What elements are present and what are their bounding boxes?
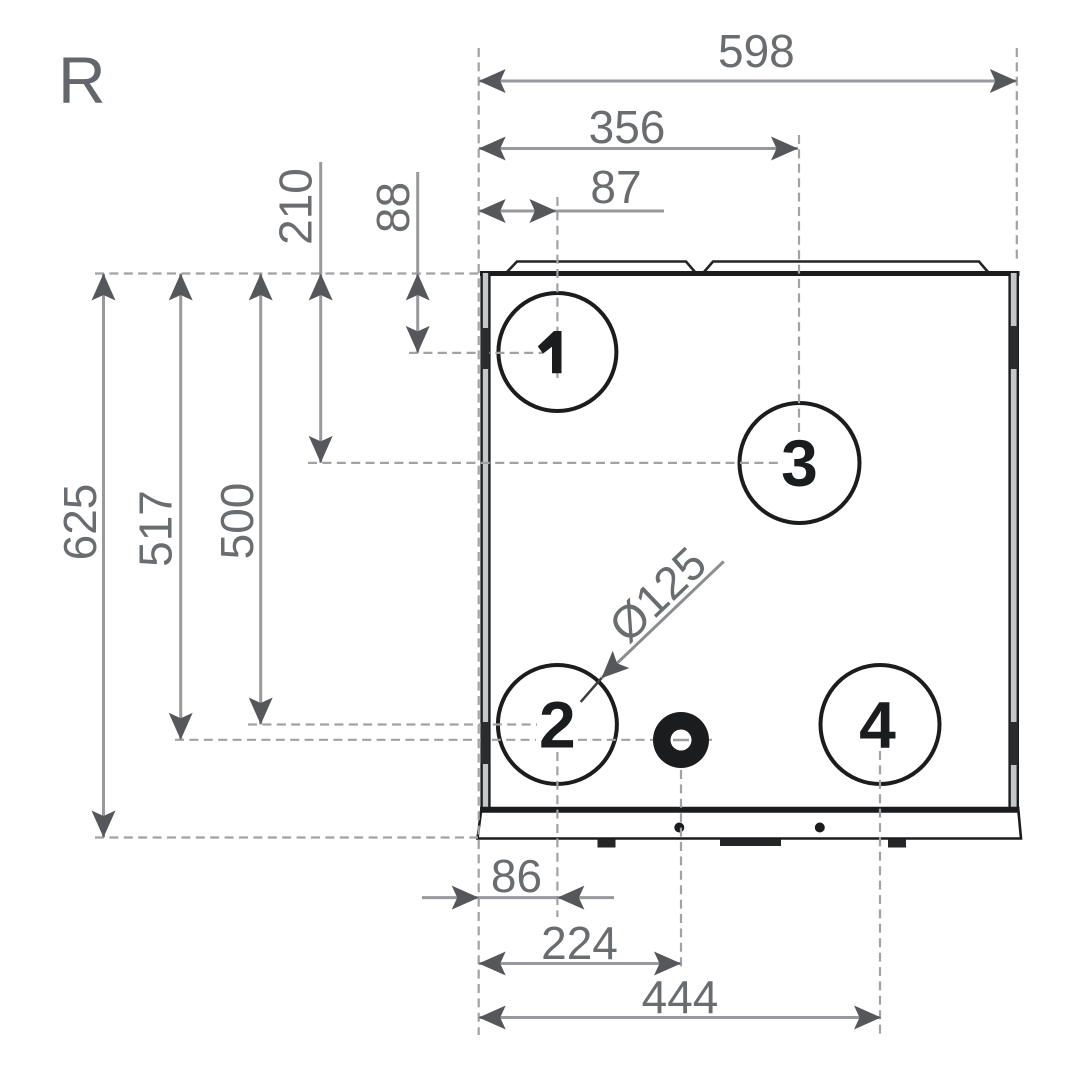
port 4 circle	[821, 665, 940, 784]
svg-text:R: R	[58, 43, 106, 117]
centerline drain horizontal right	[578, 739, 712, 741]
left wall hinge tab upper	[481, 328, 490, 369]
dim 356 line	[479, 147, 798, 150]
svg-text:2: 2	[539, 688, 576, 762]
svg-text:517: 517	[130, 490, 182, 567]
unit body group	[478, 262, 1022, 848]
left wall	[481, 273, 491, 809]
port 2 circle	[498, 665, 617, 784]
svg-text:210: 210	[270, 168, 322, 245]
bottom edge of door	[480, 807, 1020, 812]
centerline dashes	[95, 48, 1017, 1035]
right wall	[1009, 273, 1020, 809]
dim 86 line	[422, 896, 614, 899]
left wall hinge tab lower	[481, 722, 490, 764]
svg-text:87: 87	[590, 161, 641, 213]
svg-text:625: 625	[54, 484, 106, 561]
dim 500 line	[259, 274, 262, 725]
screw dot right	[815, 823, 825, 833]
svg-text:356: 356	[589, 101, 666, 153]
screw dot left	[674, 823, 684, 833]
svg-text:86: 86	[491, 850, 542, 902]
lid seam bump left	[507, 262, 695, 273]
dim 224 line	[479, 962, 681, 965]
svg-text:500: 500	[211, 483, 263, 560]
top edge	[480, 271, 1020, 276]
leader line Ø125	[602, 561, 724, 678]
svg-text:88: 88	[367, 182, 419, 233]
right wall hinge tab upper	[1010, 326, 1018, 369]
extension top horizontal	[95, 272, 479, 274]
svg-text:4: 4	[859, 688, 896, 762]
centerline port2 horizontal	[248, 723, 537, 725]
port 3 circle	[740, 403, 860, 523]
centerline drain horizontal left	[175, 739, 536, 741]
drain port	[653, 712, 709, 768]
svg-text:224: 224	[541, 917, 618, 969]
numeral 1	[538, 331, 562, 373]
dim 210 line	[319, 162, 322, 463]
centerline port3 horizontal	[308, 462, 782, 464]
drain hole centerline dash	[673, 739, 689, 742]
centerline port2 vertical lower	[556, 752, 558, 917]
centerline port1/2 vertical upper	[556, 197, 558, 378]
centerline port4 vertical	[879, 751, 881, 1035]
port numerals	[538, 331, 896, 762]
dim 598 line	[479, 80, 1017, 83]
dim 87 line	[479, 210, 664, 213]
svg-text:598: 598	[718, 25, 795, 77]
dim 517 line	[179, 274, 182, 740]
left wall hinge tabs overdraw	[481, 328, 490, 369]
foot center	[720, 840, 781, 847]
svg-text:444: 444	[642, 971, 719, 1023]
dim 625 line	[102, 274, 105, 838]
lid seam bump right	[704, 262, 988, 273]
dim 444 line	[479, 1016, 881, 1019]
centerline drain vertical	[680, 770, 682, 970]
centerline port1 horizontal	[409, 352, 543, 354]
extension line left vertical	[478, 48, 480, 1035]
svg-text:3: 3	[781, 426, 818, 500]
dimension lines	[92, 69, 1017, 1030]
port 1 circle	[498, 293, 616, 411]
extension bottom horizontal	[95, 836, 478, 838]
foot right	[888, 840, 906, 848]
base plinth	[478, 812, 1022, 839]
dim 88 line	[416, 172, 419, 353]
dimension labels	[54, 25, 795, 1023]
centerline port3 vertical	[798, 135, 800, 433]
right wall hinge tab lower	[1010, 722, 1018, 765]
extension line right vertical	[1016, 48, 1018, 264]
foot left	[598, 840, 616, 848]
